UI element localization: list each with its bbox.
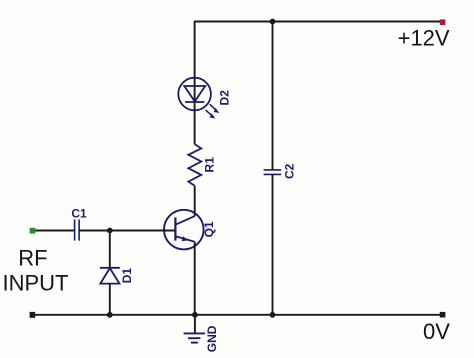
node junction C2 / bottom rail [270,312,276,318]
wire top rail +12V [194,21,440,23]
svg-text:GND: GND [205,325,219,352]
wire R1 to Q1 collector [194,186,196,216]
wire D1 to bottom rail [109,284,111,315]
LED D2 [178,78,219,119]
svg-text:INPUT: INPUT [3,270,69,295]
svg-text:C1: C1 [71,207,87,221]
node junction top rail / C2 [270,19,276,25]
capacitor C1 [75,220,80,241]
ground [184,333,205,342]
wire main vertical (rail to LED to R1) [194,22,196,145]
wire input to C1 [35,230,74,232]
terminal 0V right (black square) [440,312,446,318]
svg-text:Q1: Q1 [202,221,216,237]
svg-text:+12V: +12V [398,26,450,51]
node junction C1/D1/base [107,228,113,234]
terminal 0V left (black square) [30,312,36,318]
terminal +12V (red square) [440,19,446,25]
svg-text:RF: RF [18,245,47,270]
wire stub to ground [194,315,196,334]
wire Q1 emitter to bottom rail [194,242,196,315]
wire junction to D1 [109,231,111,268]
svg-text:0V: 0V [423,319,450,344]
terminal RF input (green square) [30,228,36,234]
wire bottom rail 0V [35,314,440,316]
wire C2 lower [272,174,274,314]
svg-text:D2: D2 [217,90,231,106]
resistor R1 [188,144,201,186]
node junction D1 / bottom rail [107,312,113,318]
transistor Q1 [164,210,204,250]
capacitor C2 [264,170,282,175]
wire C1 to Q1 base [79,230,175,232]
wire C2 upper [272,22,274,170]
svg-text:R1: R1 [203,157,217,173]
svg-text:D1: D1 [120,268,134,284]
svg-text:C2: C2 [282,163,296,179]
diode D1 [100,268,120,284]
node junction emitter / bottom rail [192,312,198,318]
